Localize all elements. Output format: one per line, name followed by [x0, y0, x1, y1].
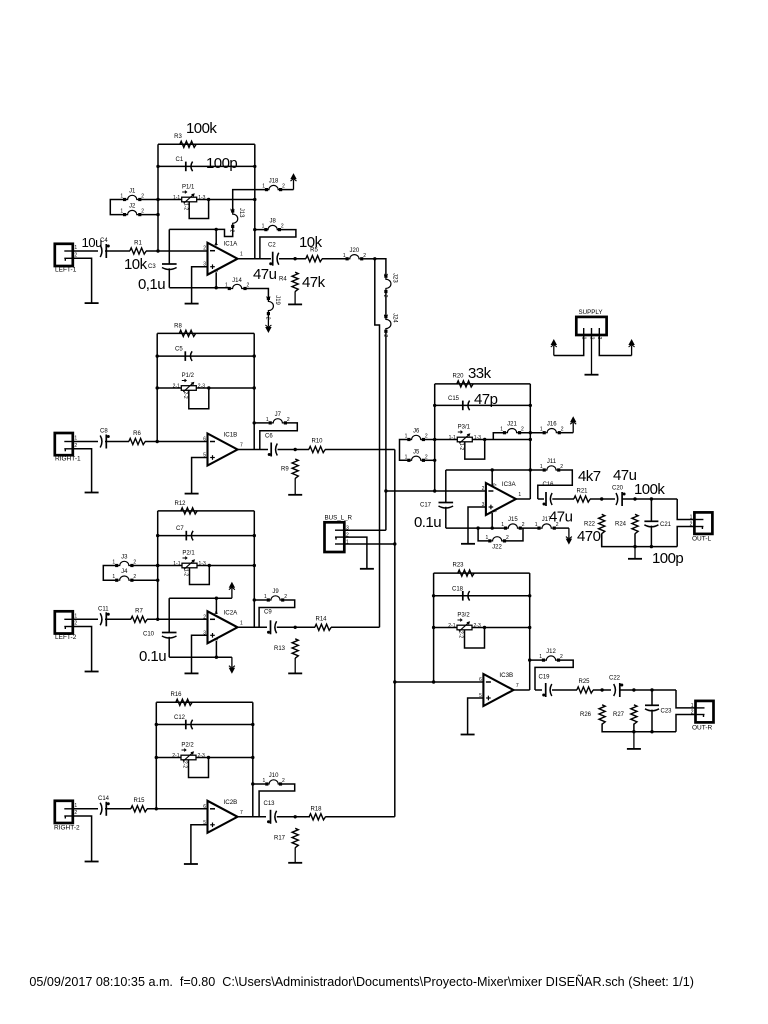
- wire V+ J11 rail: [446, 469, 543, 471]
- svg-text:R21: R21: [576, 489, 588, 495]
- wire R21 to C20: [590, 498, 615, 500]
- svg-text:R18: R18: [310, 807, 322, 813]
- wire R27 bottom: [633, 724, 635, 732]
- svg-text:R17: R17: [274, 836, 286, 842]
- svg-text:1: 1: [501, 522, 504, 528]
- junction R bus BUS pin1: [393, 542, 396, 545]
- resistor R3: [180, 141, 196, 147]
- junction pot row right ch1: [253, 198, 256, 201]
- svg-text:1: 1: [262, 184, 265, 190]
- svg-text:0,1u: 0,1u: [138, 276, 165, 293]
- op-amp IC1A: [208, 243, 238, 275]
- resistor R7: [131, 616, 147, 622]
- svg-text:J12: J12: [546, 649, 556, 655]
- svg-text:C12: C12: [174, 715, 186, 721]
- svg-text:0.1u: 0.1u: [414, 514, 441, 531]
- wire LEFT-2 pin1 to C11: [73, 618, 98, 620]
- capacitor C20: [616, 493, 618, 505]
- svg-text:LEFT-2: LEFT-2: [55, 634, 77, 641]
- svg-text:P3/1: P3/1: [458, 425, 471, 431]
- svg-text:2: 2: [264, 317, 270, 320]
- wire J1 J2 left bracket: [110, 200, 123, 215]
- junction IC3A minus left vert: [433, 489, 436, 492]
- wire to J22: [478, 528, 488, 541]
- wire plus input IC2A to ground: [192, 635, 208, 673]
- svg-text:OUT-R: OUT-R: [692, 725, 713, 732]
- svg-text:1: 1: [540, 427, 543, 433]
- svg-text:C22: C22: [609, 676, 621, 682]
- ground RIGHT-2: [85, 861, 99, 863]
- jumper J11: [543, 468, 546, 471]
- wire J15-2 to J17: [522, 527, 538, 529]
- wire R3 top rail: [158, 143, 255, 145]
- wire J7-1 to main vertical: [254, 422, 269, 424]
- wire J18-2 to V+ arrow: [282, 189, 294, 191]
- V+ supply arrow IC3A: [572, 423, 574, 433]
- svg-text:C9: C9: [264, 610, 272, 616]
- junction R22 node: [600, 497, 603, 500]
- wire J8-2 jog to row: [260, 230, 296, 259]
- junction P1/2 wiper: [207, 386, 210, 389]
- junction C7 right: [253, 534, 256, 537]
- wire C13 to R18: [277, 816, 310, 818]
- svg-text:2-1: 2-1: [173, 384, 180, 390]
- wire V- rail ch1: [169, 287, 228, 289]
- junction P2/2 wiper: [207, 756, 210, 759]
- svg-text:2: 2: [287, 417, 290, 423]
- svg-text:2: 2: [282, 778, 285, 784]
- svg-text:33k: 33k: [468, 365, 492, 382]
- svg-text:2: 2: [74, 810, 77, 816]
- junction J22 branch: [476, 526, 479, 529]
- capacitor C18: [462, 591, 464, 601]
- svg-text:7: 7: [240, 443, 243, 449]
- ground R13: [294, 658, 296, 673]
- wire R7 to IC2A: [147, 618, 208, 620]
- resistor R8: [179, 330, 195, 336]
- svg-text:R25: R25: [578, 679, 590, 685]
- junction C21 bottom: [650, 545, 653, 548]
- wire R8 top rail: [157, 332, 254, 334]
- svg-text:IC3B: IC3B: [499, 672, 513, 679]
- capacitor C16: [545, 492, 547, 506]
- wire C20 to out: [622, 498, 677, 500]
- junction minus node ch1: [156, 249, 159, 252]
- capacitor C17 decoupling: [445, 470, 447, 503]
- wire C5 row: [157, 355, 254, 357]
- svg-text:J14: J14: [232, 278, 242, 284]
- svg-text:R20: R20: [452, 374, 464, 380]
- junction J12 branch: [528, 658, 531, 661]
- svg-text:1: 1: [264, 594, 267, 600]
- junction R bus IC3B branch: [393, 680, 396, 683]
- jumper J8: [264, 228, 267, 231]
- wire J6-2 to loop left: [425, 439, 435, 441]
- resistor R16: [176, 699, 192, 705]
- svg-text:1: 1: [120, 209, 123, 215]
- svg-text:1-1: 1-1: [173, 195, 180, 201]
- junction pot row right ch3: [253, 564, 256, 567]
- capacitor C15: [462, 401, 464, 411]
- svg-text:J5: J5: [413, 449, 420, 455]
- wire plus input IC2B to ground: [191, 825, 208, 864]
- wire J5-2 riser: [425, 459, 435, 461]
- wire J2-2 to loop: [141, 214, 158, 216]
- junction pin4 rail IC3A: [491, 468, 494, 471]
- capacitor C12: [185, 720, 187, 730]
- svg-text:C21: C21: [660, 522, 672, 528]
- junction pot row left ch2: [156, 386, 159, 389]
- svg-text:2: 2: [425, 454, 428, 460]
- svg-text:R10: R10: [311, 439, 323, 445]
- svg-text:2: 2: [506, 535, 509, 541]
- ground IC1A plus: [185, 303, 199, 305]
- svg-text:2: 2: [74, 443, 77, 449]
- svg-text:R1: R1: [134, 241, 142, 247]
- wire P3/2 wiper loop: [465, 628, 485, 649]
- svg-text:J15: J15: [508, 517, 518, 523]
- svg-text:100k: 100k: [186, 120, 217, 137]
- junction J8 main vertical: [253, 228, 256, 231]
- capacitor C9: [270, 620, 272, 634]
- channel 1 feedback loop verticals: [157, 144, 159, 251]
- wire J8-1 to main vertical: [255, 229, 265, 231]
- junction R24 node: [633, 497, 636, 500]
- svg-text:R16: R16: [170, 692, 182, 698]
- wire out top corner: [677, 499, 694, 520]
- svg-text:1: 1: [382, 273, 388, 276]
- svg-text:1: 1: [382, 314, 388, 317]
- wire V+ rail ch3: [169, 597, 232, 599]
- junction J7 branch: [253, 421, 256, 424]
- junction IC3B minus left vert: [432, 680, 435, 683]
- wire V- rail ch3: [169, 656, 232, 658]
- wire P1/2 wiper loop: [189, 388, 209, 409]
- junction C5 right: [253, 354, 256, 357]
- svg-text:IC2B: IC2B: [224, 799, 238, 806]
- svg-text:SUPPLY: SUPPLY: [579, 309, 603, 316]
- wire C7 row: [158, 535, 255, 537]
- junction C5 left: [156, 354, 159, 357]
- potentiometer P3/2: [457, 625, 472, 630]
- svg-text:J18: J18: [269, 179, 279, 185]
- svg-text:J1: J1: [129, 189, 136, 195]
- junction pot row left ch3: [156, 564, 159, 567]
- ground BUS pin2: [360, 568, 374, 570]
- wire C18 row: [434, 595, 530, 597]
- svg-text:J10: J10: [269, 773, 279, 779]
- potentiometer P2/1: [182, 563, 197, 568]
- junction pot row left IC3A: [433, 438, 436, 441]
- junction minus node ch3: [156, 618, 159, 621]
- jumper J18: [265, 188, 268, 191]
- wire J21-2 to J16-1: [521, 432, 543, 434]
- wire bottom rail OUT-L: [602, 534, 678, 547]
- svg-text:J22: J22: [492, 545, 502, 551]
- op-amp IC3A: [486, 483, 516, 515]
- wire OUT-R pin2 to rail: [676, 715, 696, 732]
- svg-text:2: 2: [229, 230, 235, 233]
- svg-text:P2/1: P2/1: [182, 551, 195, 557]
- ground IC2B plus: [184, 863, 198, 865]
- svg-text:1: 1: [405, 454, 408, 460]
- wire J13 to J18: [233, 190, 265, 210]
- wire J21-1 riser: [493, 433, 503, 440]
- svg-text:05/09/2017 08:10:35 a.m. f=0.: 05/09/2017 08:10:35 a.m. f=0.80 C:\Users…: [29, 975, 694, 989]
- svg-text:C16: C16: [543, 482, 555, 488]
- wire C4 to R1: [105, 250, 130, 252]
- wire LEFT-2 pin2 down: [73, 627, 92, 672]
- svg-text:1: 1: [518, 492, 521, 498]
- svg-text:1: 1: [74, 245, 77, 251]
- connector SUPPLY: [576, 317, 606, 335]
- svg-text:R8: R8: [174, 324, 182, 330]
- svg-text:100p: 100p: [206, 155, 237, 172]
- svg-text:6: 6: [479, 677, 482, 683]
- wire pin4 stub IC1A: [215, 229, 217, 245]
- wire BUS pin1 to R bus: [344, 543, 395, 545]
- svg-text:R26: R26: [580, 712, 592, 718]
- connector OUT-L: [694, 512, 712, 534]
- ground OUT-L rail: [634, 547, 636, 559]
- svg-text:J19: J19: [274, 295, 280, 305]
- junction C12 right: [251, 723, 254, 726]
- wire R24 bottom: [634, 534, 636, 547]
- svg-text:R14: R14: [315, 617, 327, 623]
- wire C9 to R14: [277, 626, 315, 628]
- wire J10-2 jog: [259, 784, 295, 817]
- svg-text:J23: J23: [391, 273, 397, 283]
- jumper J5: [407, 459, 410, 462]
- wire J4-2 to loop: [133, 579, 157, 581]
- svg-text:J4: J4: [121, 569, 128, 575]
- svg-text:2: 2: [281, 224, 284, 230]
- junction R17 node: [294, 815, 297, 818]
- svg-text:1: 1: [405, 434, 408, 440]
- svg-text:1: 1: [486, 535, 489, 541]
- svg-text:1: 1: [225, 283, 228, 289]
- wire J1-2 to loop: [141, 199, 158, 201]
- wire R16 top rail: [156, 701, 253, 703]
- wire R5 to J20: [322, 258, 346, 260]
- svg-text:C10: C10: [143, 632, 155, 638]
- wire IC3A minus row: [386, 490, 486, 492]
- ground IC2A plus: [185, 672, 199, 674]
- svg-text:2-3: 2-3: [198, 753, 205, 759]
- junction P3/1 wiper: [483, 438, 486, 441]
- svg-text:10k: 10k: [124, 256, 148, 273]
- svg-text:2: 2: [74, 621, 77, 627]
- junction C1 right: [253, 165, 256, 168]
- resistor R6: [129, 438, 145, 444]
- wire jog to C16: [538, 498, 544, 500]
- junction pot row right IC3B: [528, 626, 531, 629]
- svg-text:IC1A: IC1A: [224, 241, 239, 248]
- svg-text:1-2: 1-2: [182, 203, 188, 210]
- svg-text:10u: 10u: [82, 235, 103, 250]
- jumper J17: [537, 527, 540, 530]
- wire L bus trunk: [375, 259, 380, 628]
- svg-text:2: 2: [561, 427, 564, 433]
- junction P3/2 wiper: [483, 626, 486, 629]
- capacitor C6: [270, 443, 272, 457]
- connector OUT-R: [696, 701, 714, 723]
- resistor R17: [292, 828, 298, 847]
- ground LEFT-2: [85, 671, 99, 673]
- svg-text:BUS_L_R: BUS_L_R: [325, 515, 353, 522]
- svg-text:2: 2: [282, 184, 285, 190]
- svg-text:2-1: 2-1: [172, 753, 179, 759]
- wire RIGHT-2 pin1 to C14: [73, 808, 98, 810]
- resistor R1: [130, 248, 146, 254]
- wire IC3A output row: [516, 498, 530, 500]
- wire pot row IC3A: [435, 439, 531, 441]
- wire J3 J4 bracket: [103, 566, 115, 581]
- junction pin8 rail ch3: [215, 656, 218, 659]
- jumper J3: [115, 564, 118, 567]
- wire C11 to R7: [105, 618, 131, 620]
- junction minus node ch4: [155, 807, 158, 810]
- junction C15 left: [433, 404, 436, 407]
- resistor R18: [309, 814, 325, 820]
- junction C1 left: [156, 165, 159, 168]
- wire pot row ch1: [158, 199, 255, 201]
- svg-text:47u: 47u: [549, 509, 573, 526]
- svg-text:1: 1: [112, 560, 115, 566]
- jumper J23: [384, 275, 387, 278]
- junction P2/1 wiper: [208, 564, 211, 567]
- channel 3 feedback verticals: [157, 511, 159, 619]
- potentiometer P1/2: [181, 386, 196, 391]
- svg-text:2: 2: [691, 710, 694, 716]
- svg-text:4: 4: [212, 243, 218, 246]
- wire J9-2 jog: [259, 600, 295, 627]
- wire pot row ch4: [156, 757, 253, 759]
- junction pot row right ch4: [251, 756, 254, 759]
- svg-text:2-2: 2-2: [458, 631, 464, 638]
- ground R9: [294, 478, 296, 495]
- op-amp IC2A: [208, 611, 238, 643]
- wire P1/1 wiper loop: [189, 200, 208, 219]
- connector RIGHT-1: [55, 433, 73, 455]
- svg-text:C19: C19: [539, 675, 551, 681]
- jumper J19: [267, 297, 270, 300]
- wire C22 to out: [620, 689, 676, 691]
- svg-text:RIGHT-1: RIGHT-1: [55, 456, 81, 463]
- svg-text:1: 1: [539, 654, 542, 660]
- capacitor C19: [545, 683, 547, 697]
- wire R14 to L bus: [331, 626, 380, 628]
- svg-text:1: 1: [112, 574, 115, 580]
- V- supply arrow ch3: [231, 657, 233, 667]
- jumper J22: [488, 539, 491, 542]
- svg-text:6: 6: [203, 437, 206, 443]
- potentiometer P2/2: [181, 755, 196, 760]
- svg-text:1: 1: [74, 613, 77, 619]
- junction J2 row: [156, 213, 159, 216]
- jumper J4: [115, 579, 118, 582]
- svg-text:2: 2: [247, 283, 250, 289]
- svg-text:J21: J21: [507, 422, 517, 428]
- svg-text:1-3: 1-3: [198, 195, 205, 201]
- svg-text:1-2: 1-2: [183, 569, 189, 576]
- junction pot row left IC3B: [432, 626, 435, 629]
- capacitor C23: [651, 690, 653, 705]
- capacitor C3 decoupling: [168, 229, 170, 264]
- svg-text:2: 2: [522, 522, 525, 528]
- svg-text:C13: C13: [264, 801, 276, 807]
- wire IC1A output row: [238, 258, 272, 260]
- svg-text:47k: 47k: [302, 274, 326, 291]
- junction C23 bottom: [650, 730, 653, 733]
- svg-text:RIGHT-2: RIGHT-2: [54, 825, 80, 832]
- wire C6 to R10: [278, 449, 310, 451]
- junction pot row right IC3A: [529, 438, 532, 441]
- svg-text:10k: 10k: [299, 234, 323, 251]
- V- supply arrow IC3A: [568, 528, 570, 538]
- capacitor C13: [270, 810, 272, 824]
- wire out top corner R: [676, 690, 696, 708]
- junction J20 bus: [373, 257, 376, 260]
- resistor R23: [458, 570, 474, 576]
- svg-text:2: 2: [203, 246, 206, 252]
- jumper J9: [267, 598, 270, 601]
- svg-text:1: 1: [343, 253, 346, 259]
- svg-text:1: 1: [535, 522, 538, 528]
- op-amp IC1B: [208, 434, 238, 466]
- connector BUS_L_R: [325, 522, 345, 552]
- wire C16 to R21: [552, 498, 574, 500]
- svg-text:47p: 47p: [474, 391, 498, 408]
- svg-text:2: 2: [284, 594, 287, 600]
- svg-text:1: 1: [229, 208, 235, 211]
- ground RIGHT-1: [85, 492, 99, 494]
- wire C1 row: [158, 165, 255, 167]
- svg-text:J24: J24: [391, 313, 397, 323]
- svg-text:C6: C6: [265, 434, 273, 440]
- wire J22-2 riser: [506, 528, 523, 541]
- junction J3 row: [156, 564, 159, 567]
- svg-text:2: 2: [141, 209, 144, 215]
- svg-text:7: 7: [240, 810, 243, 816]
- junction pot row left ch4: [155, 756, 158, 759]
- svg-text:2: 2: [141, 194, 144, 200]
- svg-text:R15: R15: [133, 798, 145, 804]
- resistor R14: [315, 624, 331, 630]
- svg-text:IC2A: IC2A: [224, 609, 239, 616]
- wire J6 J5 bracket: [400, 440, 408, 461]
- wire SUPPLY pin1: [554, 335, 584, 356]
- junction pot row right ch2: [253, 386, 256, 389]
- svg-text:C23: C23: [661, 709, 673, 715]
- wire pin4 stub IC2A: [215, 598, 217, 614]
- wire plus input IC3B to ground: [468, 698, 484, 735]
- junction R24 bottom: [633, 545, 636, 548]
- V+ supply arrow ch1: [293, 180, 295, 190]
- IC3B feedback verticals: [433, 573, 435, 682]
- wire P2/2 wiper loop: [189, 758, 209, 778]
- junction J9 branch: [253, 598, 256, 601]
- svg-text:1: 1: [690, 515, 693, 521]
- svg-text:1: 1: [540, 464, 543, 470]
- svg-text:2: 2: [133, 574, 136, 580]
- svg-text:7: 7: [516, 683, 519, 689]
- wire pin4 stub IC3A: [491, 470, 493, 486]
- jumper J10: [265, 782, 268, 785]
- svg-text:100p: 100p: [652, 550, 683, 567]
- wire OUT-L pin2 to rail: [677, 527, 694, 547]
- svg-text:J13: J13: [238, 208, 244, 218]
